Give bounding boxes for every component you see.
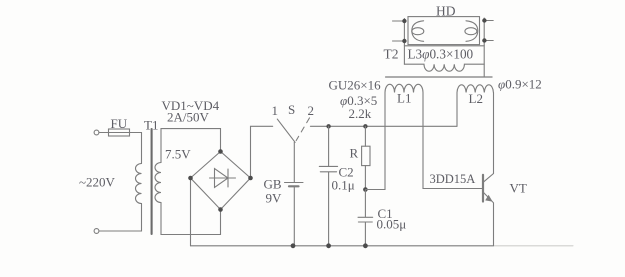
inductor L2 winding — [457, 85, 493, 93]
switch S blade position 2 dashed — [296, 118, 309, 141]
wire secondary bottom to bridge bottom — [161, 203, 221, 235]
svg-text:~220V: ~220V — [79, 175, 116, 190]
capacitor C2 — [319, 126, 337, 246]
lamp left filament — [412, 21, 424, 42]
battery GB long plate — [285, 182, 304, 184]
node rail-R — [363, 124, 367, 128]
transformer T1 core — [151, 129, 153, 234]
wire primary to terminal bottom — [99, 204, 142, 232]
node bridge top — [218, 149, 223, 154]
svg-text:L3φ0.3×100: L3φ0.3×100 — [408, 47, 474, 62]
node lamp pin bottom-right — [482, 38, 486, 42]
svg-text:2A/50V: 2A/50V — [167, 110, 210, 125]
node bridge left — [188, 176, 193, 181]
svg-text:GB: GB — [264, 177, 282, 192]
switch S blade position 1 — [277, 119, 295, 142]
svg-text:FU: FU — [111, 116, 128, 131]
ground rail bottom — [191, 245, 494, 247]
transformer T1 primary winding — [136, 164, 142, 204]
svg-text:0.1μ: 0.1μ — [332, 178, 355, 193]
capacitor C1 — [358, 190, 373, 246]
wire bridge left vertex down to ground rail — [190, 178, 192, 246]
bridge rectifier VD1~VD4 diamond — [191, 152, 251, 210]
svg-text:2.2k: 2.2k — [349, 106, 372, 121]
svg-text:φ0.9×12: φ0.9×12 — [498, 77, 542, 92]
lamp HD envelope — [408, 17, 480, 45]
svg-text:9V: 9V — [266, 191, 283, 206]
svg-text:GU26×16: GU26×16 — [329, 78, 382, 93]
T2 winding L3 with frame bottom line — [404, 64, 484, 71]
ground rail faint extension — [494, 245, 574, 247]
T2 label frame top line — [404, 45, 484, 47]
wire L2 right down to VT collector — [483, 93, 493, 183]
diode symbol inside bridge — [210, 169, 236, 188]
node lamp pin top-right — [482, 18, 486, 22]
fuse FU — [109, 129, 130, 136]
node C2-ground — [326, 243, 331, 248]
svg-text:3DD15A: 3DD15A — [430, 172, 476, 186]
node battery-ground — [291, 243, 296, 248]
lamp pin link right / T2 frame right edge — [483, 18, 485, 77]
node R-C1 — [363, 187, 368, 192]
wire L1 right to VT base — [423, 93, 482, 189]
svg-text:S: S — [288, 102, 295, 117]
lamp pin link left / T2 frame left edge — [403, 19, 405, 65]
node lamp pin bottom-left — [402, 39, 406, 43]
node bridge right — [248, 176, 253, 181]
lamp pin stubs right — [484, 21, 493, 41]
svg-text:7.5V: 7.5V — [165, 147, 191, 162]
terminal bottom-left — [94, 229, 99, 234]
inductor L1 winding — [385, 84, 423, 92]
svg-text:T1: T1 — [144, 118, 158, 133]
svg-text:R: R — [350, 146, 359, 161]
wire battery to ground rail — [293, 186, 295, 246]
wire secondary top to bridge top — [161, 129, 221, 163]
node bridge bottom — [218, 207, 223, 212]
wire R bottom to L1 left — [365, 93, 385, 190]
node lamp pin top-left — [402, 19, 406, 23]
node rail-C2 — [326, 124, 330, 128]
resistor R — [364, 126, 366, 146]
svg-text:VT: VT — [510, 181, 527, 196]
transistor VT base bar — [482, 175, 484, 202]
battery GB short plate — [289, 185, 299, 187]
wire switch contact 2 to rail — [310, 125, 457, 127]
svg-text:L1: L1 — [397, 91, 411, 106]
wire switch common to battery — [293, 142, 295, 182]
svg-text:T2: T2 — [384, 47, 399, 62]
svg-text:HD: HD — [436, 4, 456, 19]
lamp pin stubs left — [393, 21, 405, 41]
transistor VT emitter — [483, 192, 493, 246]
lamp right filament — [466, 21, 478, 42]
svg-text:0.05μ: 0.05μ — [377, 217, 407, 232]
svg-text:L2: L2 — [469, 91, 483, 106]
wire rail end up to L2 left — [456, 93, 458, 127]
transistor VT emitter arrow — [485, 195, 492, 202]
transformer T1 secondary winding — [155, 163, 161, 203]
svg-text:1: 1 — [272, 103, 279, 118]
terminal top-left — [94, 130, 99, 135]
svg-text:2: 2 — [308, 103, 315, 118]
wire fuse to T1 primary — [130, 133, 142, 164]
wire terminal to fuse — [99, 132, 108, 134]
node C1-ground — [363, 243, 368, 248]
core bar of oscillation transformer — [386, 76, 492, 78]
wire bridge right vertex up to switch contact 1 — [251, 126, 273, 178]
